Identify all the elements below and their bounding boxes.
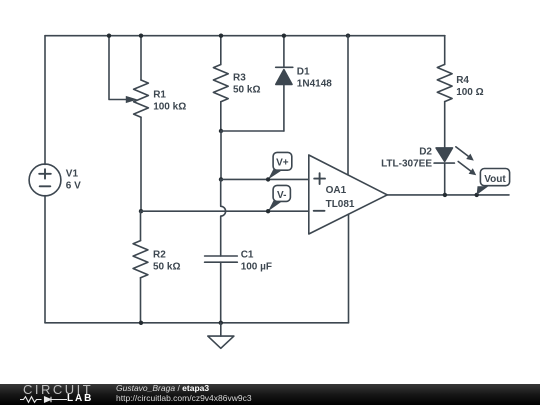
- capacitor C1: [205, 256, 238, 323]
- diode D1: [276, 36, 293, 131]
- label OA1 value: [326, 185, 355, 210]
- wire op-amp positive supply: [347, 36, 349, 175]
- svg-text:R2: R2: [153, 249, 166, 260]
- svg-text:D1: D1: [297, 66, 310, 77]
- flag node V+: [266, 152, 292, 181]
- svg-text:1N4148: 1N4148: [297, 78, 332, 89]
- node junction top rail D1: [282, 34, 286, 38]
- ground: [208, 323, 234, 349]
- LED D2: [434, 148, 454, 195]
- svg-text:TL081: TL081: [326, 199, 355, 210]
- node junction top rail wiper: [107, 34, 111, 38]
- node junction output Vout: [475, 193, 479, 197]
- CircuitLab logo: [23, 384, 93, 395]
- footer text line 1: [116, 383, 209, 393]
- node junction V+: [219, 177, 223, 181]
- wire C1 branch upper (hop over V- wire): [221, 179, 226, 256]
- svg-text:50 kΩ: 50 kΩ: [153, 261, 180, 272]
- label R1 value: [153, 90, 186, 113]
- label D2 value: [381, 147, 432, 170]
- label D1 value: [297, 66, 332, 89]
- resistor R2: [133, 211, 148, 323]
- wire branch down to V+ node: [220, 131, 222, 179]
- voltage source V1: [29, 164, 61, 196]
- op-amp OA1: [309, 155, 387, 234]
- svg-text:6 V: 6 V: [66, 181, 81, 192]
- LED D2 emission arrows: [456, 147, 476, 176]
- footer text line 2: [116, 393, 252, 403]
- wire bottom rail: [45, 322, 349, 324]
- logo squiggle: [20, 395, 68, 404]
- svg-text:V+: V+: [276, 157, 289, 168]
- node junction top rail R1: [139, 34, 143, 38]
- node junction top rail supply: [346, 34, 350, 38]
- resistor R1 (potentiometer body): [134, 36, 149, 212]
- svg-text:50 kΩ: 50 kΩ: [233, 85, 260, 96]
- wire left rail lower: [44, 196, 46, 323]
- svg-text:V-: V-: [277, 190, 286, 201]
- label R2 value: [153, 249, 180, 272]
- svg-text:100 kΩ: 100 kΩ: [153, 101, 186, 112]
- svg-text:R4: R4: [456, 75, 469, 86]
- svg-text:R1: R1: [153, 90, 166, 101]
- wire V- net: [141, 210, 309, 212]
- resistor R3: [213, 36, 228, 131]
- svg-text:100 µF: 100 µF: [241, 262, 272, 273]
- label V1 value: [66, 169, 81, 192]
- flag node V-: [266, 185, 291, 213]
- svg-text:D2: D2: [419, 147, 432, 158]
- svg-text:100 Ω: 100 Ω: [456, 87, 483, 98]
- footer banner: [0, 384, 540, 405]
- node junction R3 bottom: [219, 129, 223, 133]
- svg-text:LTL-307EE: LTL-307EE: [381, 158, 432, 169]
- wire pot wiper branch: [109, 36, 127, 100]
- wiper arrowhead: [126, 96, 138, 103]
- node junction output R4/D2: [443, 193, 447, 197]
- flag node Vout: [477, 169, 510, 195]
- node junction bottom rail R2: [139, 321, 143, 325]
- label R4 value: [456, 75, 483, 98]
- node junction top rail R3: [219, 34, 223, 38]
- wire left rail upper: [44, 36, 46, 165]
- resistor R4: [437, 36, 452, 148]
- label C1 value: [241, 250, 272, 273]
- label R3 value: [233, 73, 260, 96]
- svg-text:Vout: Vout: [484, 174, 506, 185]
- node junction R1/R2/V-: [139, 209, 143, 213]
- svg-text:OA1: OA1: [326, 185, 347, 196]
- wire top rail: [45, 35, 445, 37]
- svg-text:R3: R3: [233, 73, 246, 84]
- wire V+ net: [221, 178, 309, 180]
- wire output net: [387, 194, 509, 196]
- svg-text:V1: V1: [66, 169, 79, 180]
- wire op-amp negative supply: [348, 214, 350, 323]
- svg-text:C1: C1: [241, 250, 254, 261]
- wire R3 to D1: [221, 130, 284, 132]
- node junction bottom rail C1/ground: [219, 321, 223, 325]
